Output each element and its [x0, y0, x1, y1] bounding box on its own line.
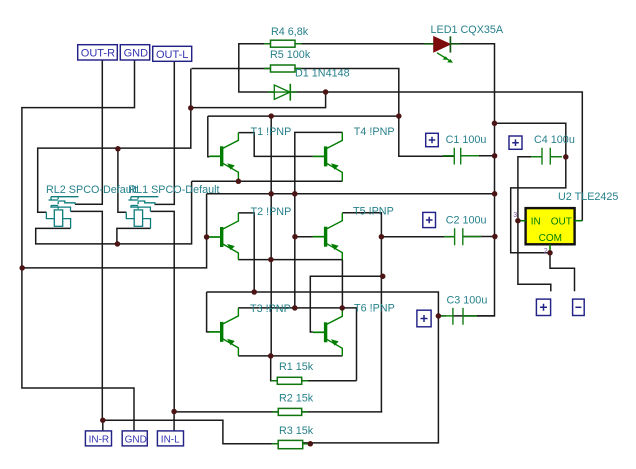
node R3 right — [308, 441, 314, 447]
svg-text:U2 TLE2425: U2 TLE2425 — [558, 191, 618, 203]
node label IN-R — [85, 431, 111, 446]
svg-text:COM: COM — [539, 233, 562, 244]
svg-text:T3 !PNP: T3 !PNP — [250, 303, 291, 315]
power terminal + — [536, 299, 550, 315]
wire R2 right — [302, 411, 383, 413]
polarity marker C1 + — [426, 133, 439, 146]
wire IN-R stub — [102, 420, 104, 431]
IC U2 TLE2425 — [513, 208, 582, 255]
svg-text:LED1 CQX35A: LED1 CQX35A — [431, 24, 504, 36]
node T1 emitter — [236, 179, 242, 185]
wire C4 left — [518, 157, 551, 292]
wire R4 left link — [239, 44, 274, 92]
node bus116 a — [268, 113, 274, 119]
svg-text:RL2 SPCO-Default: RL2 SPCO-Default — [46, 184, 137, 196]
node coil rail — [115, 146, 121, 152]
U2 pin COM (2) — [549, 244, 551, 252]
node T5 base — [292, 234, 298, 240]
capacitor C1 — [443, 148, 479, 165]
wire T1 collector to T4 base — [238, 133, 313, 157]
wire emitter bus row2 — [238, 259, 342, 261]
wire R4 to LED1 anode — [295, 43, 434, 45]
wire OUT-L to R5 — [192, 68, 271, 70]
node emitter bus — [268, 257, 274, 263]
wire T6 base feed — [310, 276, 382, 332]
node U2 COM — [547, 250, 553, 256]
TRANSISTORS — [209, 132, 342, 356]
node coil bottom rail — [115, 241, 121, 247]
wire D1 cathode rail — [292, 92, 583, 221]
svg-text:RL1 SPCO-Default: RL1 SPCO-Default — [128, 184, 219, 196]
svg-text:T2 !PNP: T2 !PNP — [251, 206, 292, 218]
node R5/D1 — [188, 105, 194, 111]
transistor T6 — [313, 308, 342, 356]
node C1 right — [492, 153, 498, 159]
resistor R3 — [272, 440, 310, 448]
wire C1 right — [461, 155, 495, 157]
wire T3 base drop — [207, 292, 210, 332]
WIRES-TOP — [22, 44, 582, 444]
relay RL2 SPCO — [46, 197, 78, 229]
svg-text:R1 15k: R1 15k — [279, 361, 314, 373]
wire relay coil rail RL1 — [118, 149, 126, 212]
wire LED1 cathode to C-rail — [451, 44, 495, 124]
wire T5 collector — [342, 213, 381, 412]
svg-text:IN-L: IN-L — [161, 434, 180, 445]
node bus116 b — [396, 113, 402, 119]
U2 pin OUT — [575, 220, 583, 222]
wire T3-T6 collector link — [238, 308, 356, 381]
wire COM down — [550, 253, 575, 291]
svg-text:GND: GND — [125, 434, 147, 445]
wire T4 collector — [295, 132, 343, 308]
node emitter bus 2 — [268, 353, 274, 359]
wire base rail T1 — [208, 116, 210, 157]
node label OUT-R — [78, 45, 118, 60]
svg-text:3: 3 — [513, 212, 517, 219]
svg-text:T1 !PNP: T1 !PNP — [251, 126, 292, 138]
transistor T2 — [209, 213, 239, 260]
node T6 base feed — [380, 274, 386, 280]
transistor T5 — [313, 213, 342, 260]
wire IN-R rail — [103, 420, 278, 444]
node T2 base — [204, 234, 210, 240]
wire OUT-R stub — [75, 60, 102, 204]
node T3 base — [251, 289, 257, 295]
svg-text:OUT-R: OUT-R — [81, 48, 115, 60]
wire LED rail to C4 — [495, 123, 566, 157]
capacitor C2 — [444, 228, 481, 245]
U2 pin IN (3) — [518, 220, 526, 222]
node label OUT-L — [153, 46, 192, 61]
node C2 right — [492, 234, 498, 240]
diode D1 — [268, 84, 297, 101]
resistor R2 — [272, 408, 308, 415]
svg-text:D1 1N4148: D1 1N4148 — [295, 67, 350, 79]
svg-text:IN: IN — [531, 217, 541, 228]
wire T2 base drop — [22, 194, 207, 268]
wire C2 right — [463, 236, 495, 238]
wire R5 node vertical — [38, 69, 191, 213]
transistor T3 — [209, 308, 239, 356]
node T3 collector — [292, 305, 298, 311]
wire C3 right — [463, 315, 494, 317]
capacitor C4 — [531, 148, 562, 165]
node C4 right — [563, 154, 569, 160]
NODE LABEL TEXTS — [81, 48, 189, 446]
wire T5 base — [295, 236, 313, 238]
svg-text:C1 100u: C1 100u — [446, 134, 487, 146]
wire x494 column — [453, 123, 495, 316]
transistor T1 — [209, 133, 238, 182]
svg-text:OUT-L: OUT-L — [156, 49, 188, 61]
wire RL1 coil bottom — [117, 228, 151, 244]
node GND left — [19, 265, 25, 271]
polarity marker C3 + — [417, 310, 431, 327]
svg-text:OUT: OUT — [551, 217, 572, 228]
svg-text:IN-R: IN-R — [89, 434, 110, 445]
wire x271 column — [270, 116, 272, 356]
svg-text:R3 15k: R3 15k — [279, 425, 314, 437]
svg-text:GND: GND — [124, 48, 149, 60]
wire RL1 common — [151, 211, 175, 411]
node T5 collector — [379, 234, 385, 240]
svg-text:R5 100k: R5 100k — [270, 49, 311, 61]
wire T2 coll to T3 base — [207, 292, 439, 443]
node LED/C rail — [492, 121, 498, 127]
wire C2 left — [381, 236, 454, 238]
wire y194 — [207, 193, 495, 195]
wire R1 left — [271, 356, 278, 381]
svg-text:T5 !PNP: T5 !PNP — [353, 206, 394, 218]
transistor T4 — [313, 132, 342, 181]
svg-text:C3 100u: C3 100u — [447, 295, 488, 307]
wire R5 right to node — [295, 69, 454, 157]
svg-text:2: 2 — [544, 248, 548, 255]
wire C4 right down — [511, 157, 566, 253]
LABEL BOXES — [78, 45, 584, 446]
node y194 a — [268, 191, 274, 197]
node IN-L — [171, 409, 177, 415]
wire OUT-L stub — [155, 61, 175, 204]
resistor R1 — [271, 377, 308, 384]
node T6 collector — [339, 305, 345, 311]
LED LED1 — [424, 36, 460, 62]
relay RL1 SPCO — [126, 197, 158, 229]
polarity marker C4 + — [509, 136, 522, 149]
node U2 IN — [515, 218, 521, 224]
node IN-R — [100, 417, 106, 423]
node y194 c — [492, 191, 498, 197]
power terminal - — [573, 299, 585, 315]
resistor R5 — [264, 65, 302, 72]
node D1-LED rail — [323, 89, 329, 95]
svg-text:T4 !PNP: T4 !PNP — [354, 126, 395, 138]
resistor R4 — [264, 40, 302, 47]
wire emitter bus T3 row — [238, 355, 342, 357]
svg-text:R2 15k: R2 15k — [279, 393, 314, 405]
polarity marker C2 + — [423, 212, 436, 227]
node y194 b — [292, 191, 298, 197]
RELAYS — [46, 197, 158, 229]
wire T5 emitter to T6 coll — [341, 260, 343, 308]
node label GND top — [120, 45, 149, 60]
svg-text:C4 100u: C4 100u — [534, 134, 575, 146]
wire R3 right — [303, 443, 311, 445]
wire R2 row — [174, 411, 278, 413]
wire D1 node down — [191, 92, 326, 108]
node label IN-L — [157, 431, 183, 446]
capacitor C3 — [441, 308, 477, 325]
svg-text:C2 100u: C2 100u — [446, 215, 487, 227]
wire GND top rail — [22, 60, 135, 431]
wire y181 — [192, 180, 343, 182]
node label GND bottom — [122, 431, 147, 446]
node C3 left — [436, 313, 442, 319]
svg-text:T6 !PNP: T6 !PNP — [354, 303, 395, 315]
wire IN-L stub — [173, 412, 175, 431]
wire R1 right — [302, 380, 357, 382]
svg-text:R4 6,8k: R4 6,8k — [271, 26, 309, 38]
wire bus y116 — [208, 115, 399, 117]
wire emitter bus T1 row — [36, 181, 192, 244]
wire C3 left — [438, 315, 446, 317]
wire T2 collector — [238, 213, 254, 292]
wire RL2 common — [71, 211, 103, 420]
